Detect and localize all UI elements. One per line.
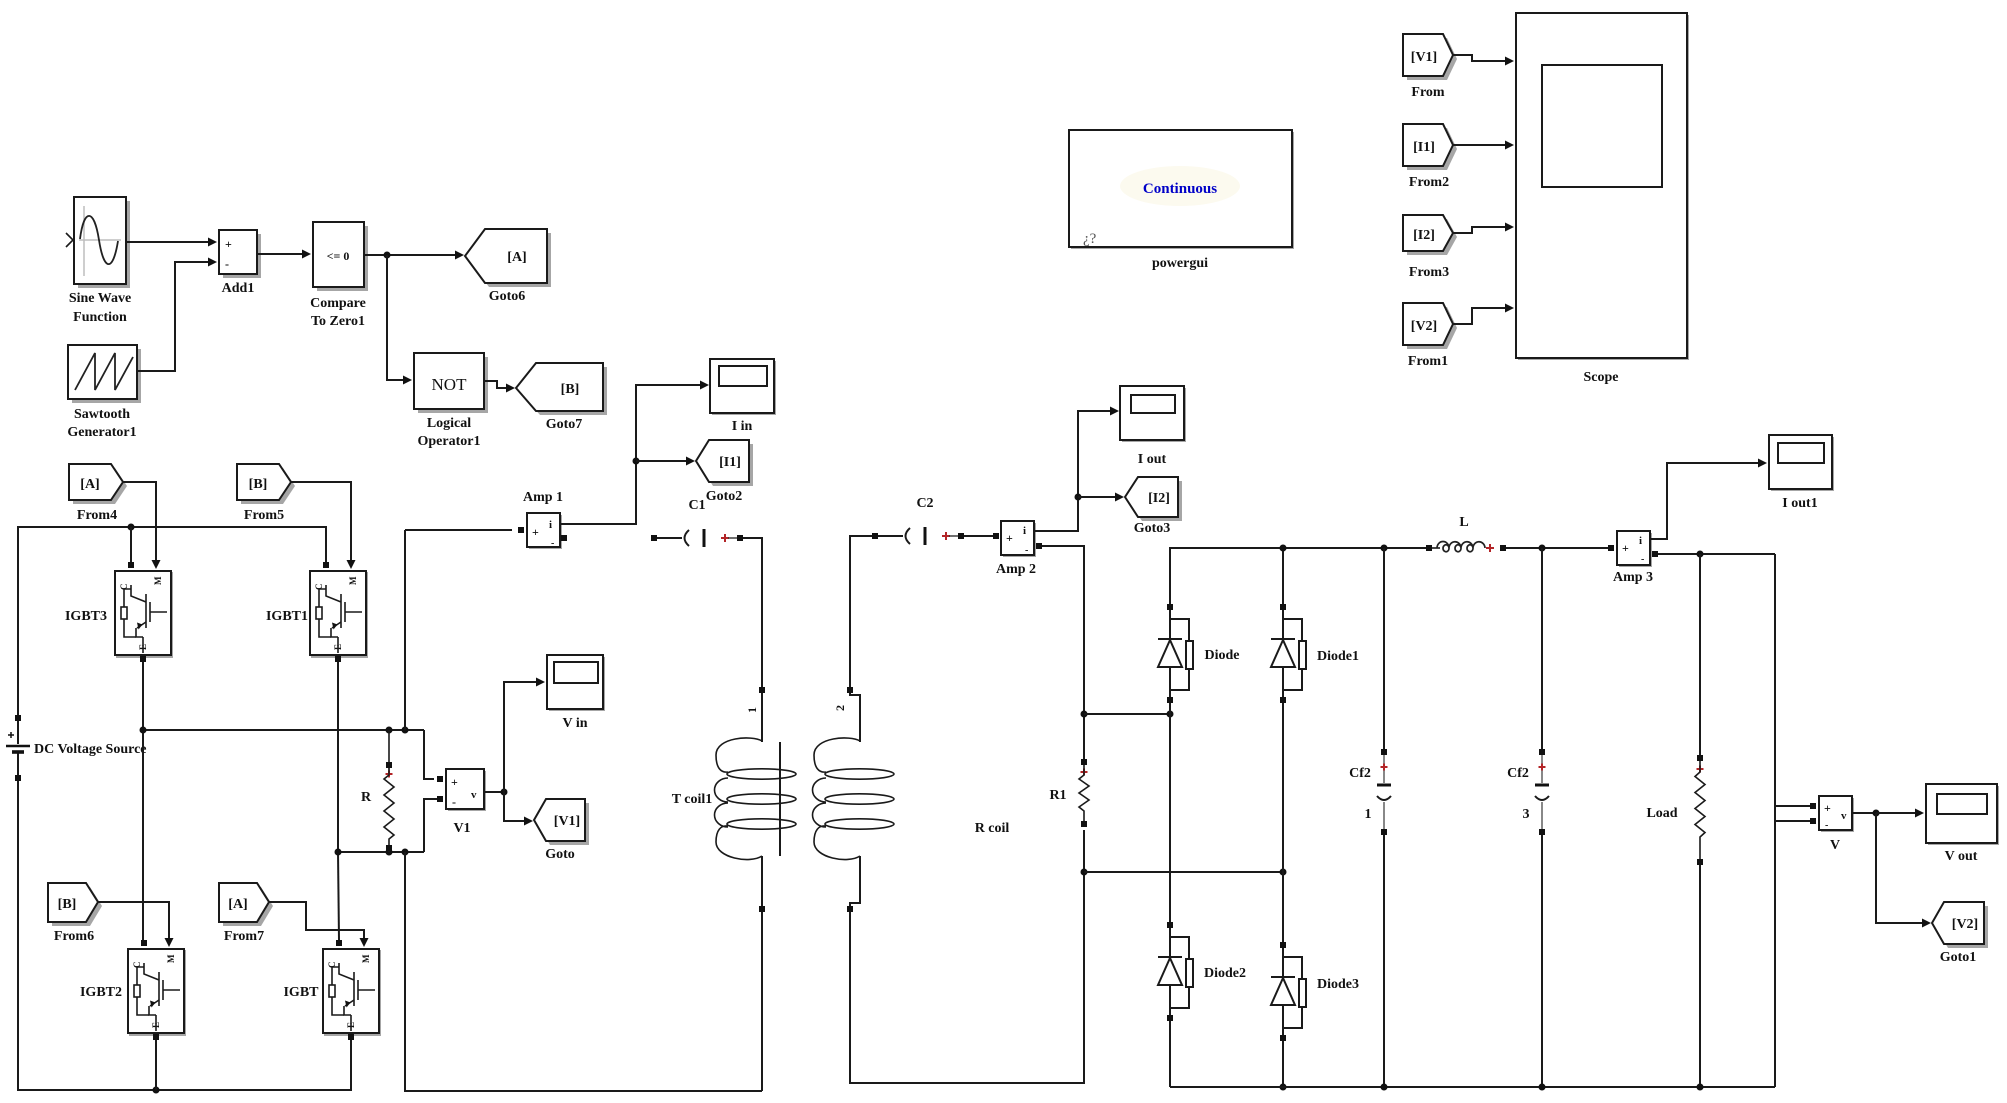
svg-text:T coil1: T coil1 bbox=[672, 792, 713, 807]
svg-text:-: - bbox=[551, 538, 554, 549]
wire From to Scope bbox=[1453, 55, 1514, 66]
transistor IGBT1 bbox=[266, 562, 368, 662]
node bottom rail Cf2 second bbox=[1539, 1084, 1546, 1091]
wire Diode1 to lower node bbox=[1282, 703, 1284, 872]
wire Diode to upper node bbox=[1169, 703, 1171, 714]
capacitor C2 bbox=[872, 496, 964, 545]
svg-text:Diode1: Diode1 bbox=[1317, 649, 1359, 664]
wire Amp2 minus down to R1 bbox=[1042, 546, 1084, 762]
node top rail Diode1 bbox=[1280, 545, 1287, 552]
wire DC source negative to bottom rail bbox=[18, 781, 351, 1090]
svg-text:[V2]: [V2] bbox=[1952, 917, 1978, 932]
svg-text:[B]: [B] bbox=[58, 897, 77, 912]
wire C2 to Amp2 bbox=[964, 535, 993, 537]
svg-text:Cf2: Cf2 bbox=[1349, 766, 1371, 781]
svg-text:-: - bbox=[1641, 554, 1644, 565]
wire bottom branch to primary return bbox=[405, 852, 762, 1091]
scope Scope bbox=[1516, 13, 1689, 385]
goto tag Goto [V1] bbox=[534, 799, 589, 862]
svg-text:R1: R1 bbox=[1049, 788, 1066, 803]
diode Diode1 bbox=[1271, 604, 1359, 703]
resistor R1 bbox=[1049, 759, 1089, 827]
voltmeter V bbox=[1810, 796, 1854, 853]
svg-text:DC Voltage Source: DC Voltage Source bbox=[34, 742, 147, 757]
node rectifier upper input at diode leg bbox=[1167, 711, 1174, 718]
inductor L bbox=[1426, 515, 1506, 552]
from tag From7 [A] bbox=[219, 883, 273, 944]
wire C1 to transformer primary bbox=[743, 538, 762, 687]
wire V1 output to junction bbox=[484, 791, 504, 793]
svg-text:L: L bbox=[1459, 515, 1468, 530]
svg-text:Cf2: Cf2 bbox=[1507, 766, 1529, 781]
block powergui bbox=[1069, 130, 1294, 271]
wire V output down to Goto1 bbox=[1876, 813, 1931, 928]
wire upper node to Diode2 bbox=[1169, 714, 1171, 922]
wire Add1 to Compare To Zero1 bbox=[257, 250, 311, 259]
svg-text:+: + bbox=[451, 775, 458, 789]
svg-text:Diode: Diode bbox=[1205, 648, 1240, 663]
wire V1 minus lead bbox=[424, 799, 437, 852]
scope I in bbox=[710, 359, 776, 434]
transformer T coil1 bbox=[672, 687, 894, 912]
wire junction down to Goto bbox=[504, 792, 533, 826]
svg-text:C1: C1 bbox=[688, 498, 705, 513]
voltmeter V1 bbox=[437, 769, 486, 836]
svg-text:V: V bbox=[1830, 838, 1840, 853]
svg-text:Scope: Scope bbox=[1584, 370, 1619, 385]
svg-text:NOT: NOT bbox=[432, 375, 468, 394]
svg-text:I in: I in bbox=[732, 419, 753, 434]
wire V plus lead bbox=[1775, 805, 1810, 807]
svg-text:From4: From4 bbox=[77, 508, 117, 523]
svg-text:v: v bbox=[1841, 810, 1847, 822]
wire secondary bottom return bbox=[850, 830, 1084, 1083]
svg-text:-: - bbox=[225, 257, 229, 271]
wire secondary top to C2 bbox=[850, 536, 872, 687]
svg-text:IGBT2: IGBT2 bbox=[80, 985, 122, 1000]
wire Sawtooth to Add1 bbox=[137, 258, 217, 372]
svg-text:Goto2: Goto2 bbox=[706, 489, 743, 504]
node mid rail B at right leg bbox=[335, 849, 342, 856]
node top rail Cf2 first leg bbox=[1381, 545, 1388, 552]
wire rectifier upper input bbox=[1084, 713, 1170, 715]
wire Sine Wave to Add1 bbox=[126, 238, 217, 247]
node mid rail A at left leg bbox=[140, 727, 147, 734]
svg-text:R coil: R coil bbox=[975, 821, 1010, 836]
block Sine Wave Function bbox=[66, 197, 131, 325]
block Compare To Zero1 bbox=[310, 222, 368, 329]
resistor Load bbox=[1646, 755, 1705, 865]
svg-text:+: + bbox=[1824, 801, 1831, 815]
svg-text:[V2]: [V2] bbox=[1411, 319, 1437, 334]
svg-text:powergui: powergui bbox=[1152, 256, 1208, 271]
wire From5 to IGBT1 gate bbox=[291, 482, 356, 569]
from tag From1 [V2] bbox=[1403, 303, 1457, 369]
svg-text:IGBT1: IGBT1 bbox=[266, 609, 308, 624]
svg-text:Add1: Add1 bbox=[222, 281, 255, 296]
wire From3 to Scope bbox=[1453, 223, 1514, 234]
svg-text:V1: V1 bbox=[453, 821, 470, 836]
node mid rail B at bottom branch bbox=[402, 849, 409, 856]
svg-text:i: i bbox=[549, 519, 552, 531]
wire branch to Goto2 bbox=[636, 457, 695, 466]
wire rectifier lower input bbox=[1084, 871, 1283, 873]
scope V in bbox=[547, 655, 605, 731]
wire Diode leg to top rail bbox=[1170, 548, 1426, 604]
wire output node down to V meter bbox=[1774, 554, 1776, 1087]
diode Diode bbox=[1158, 604, 1240, 703]
svg-text:[V1]: [V1] bbox=[1411, 50, 1437, 65]
node R1 bottom junction bbox=[1081, 869, 1088, 876]
svg-text:[A]: [A] bbox=[507, 250, 526, 265]
svg-text:1: 1 bbox=[1365, 807, 1372, 822]
node R1 top junction bbox=[1081, 711, 1088, 718]
node V1 output junction bbox=[501, 789, 508, 796]
ammeter Amp 2 bbox=[993, 521, 1042, 577]
svg-text:Sine Wave: Sine Wave bbox=[69, 291, 131, 306]
wire IGBT3 emitter to left leg node bbox=[142, 662, 144, 730]
wire V minus lead bbox=[1775, 820, 1810, 822]
svg-text:Load: Load bbox=[1646, 806, 1677, 821]
svg-text:+: + bbox=[225, 237, 232, 251]
wire Cf2 second leg to bottom rail bbox=[1541, 835, 1543, 1087]
svg-text:Function: Function bbox=[73, 310, 127, 325]
svg-text:To Zero1: To Zero1 bbox=[311, 314, 365, 329]
wire junction up to V in scope bbox=[504, 678, 545, 793]
node mid rail B at R bbox=[386, 849, 393, 856]
svg-text:V in: V in bbox=[562, 716, 587, 731]
svg-text:Sawtooth: Sawtooth bbox=[74, 407, 130, 422]
from tag From3 [I2] bbox=[1403, 215, 1457, 280]
wire Load to bottom rail bbox=[1699, 865, 1701, 1087]
wire primary bottom to return rail bbox=[761, 912, 763, 1091]
node V output bbox=[1873, 810, 1880, 817]
node mid rail A at R bbox=[386, 727, 393, 734]
svg-text:v: v bbox=[471, 789, 477, 801]
svg-text:I out: I out bbox=[1138, 452, 1167, 467]
svg-text:Amp 3: Amp 3 bbox=[1613, 570, 1653, 585]
from tag From5 [B] bbox=[237, 464, 295, 523]
wire IGBT2 emitter stub bbox=[155, 1040, 157, 1090]
node Amp2 output branch bbox=[1075, 494, 1082, 501]
svg-text:-: - bbox=[1825, 820, 1828, 831]
wire Cf2 first leg to bottom rail bbox=[1383, 835, 1385, 1087]
svg-text:[B]: [B] bbox=[561, 382, 580, 397]
wire V output junction bbox=[1852, 812, 1876, 814]
wire Cf2 second leg down bbox=[1541, 548, 1543, 749]
scope V out bbox=[1926, 784, 1999, 864]
wire branch to Goto3 bbox=[1078, 493, 1124, 502]
transistor IGBT bbox=[283, 940, 381, 1040]
node bottom rail Load bbox=[1697, 1084, 1704, 1091]
svg-text:Goto3: Goto3 bbox=[1134, 521, 1171, 536]
wire Amp1 current output up to I in bbox=[560, 381, 709, 525]
wire Cf2 first leg down bbox=[1383, 548, 1385, 749]
wire to V out scope bbox=[1876, 809, 1924, 818]
wire NOT to Goto7 bbox=[484, 381, 515, 393]
svg-text:+: + bbox=[1006, 531, 1013, 545]
wire Diode2 to bottom rail bbox=[1169, 1021, 1171, 1087]
svg-text:From1: From1 bbox=[1408, 354, 1448, 369]
svg-text:Goto7: Goto7 bbox=[546, 417, 583, 432]
svg-text:[B]: [B] bbox=[249, 477, 268, 492]
svg-text:-: - bbox=[452, 795, 456, 809]
wire mid rail A to Amp1 input bbox=[405, 529, 512, 531]
goto tag Goto6 [A] bbox=[465, 229, 551, 304]
node compare output junction bbox=[384, 252, 391, 259]
from tag From2 [I1] bbox=[1403, 124, 1457, 190]
wire From6 to IGBT2 gate bbox=[98, 902, 174, 947]
wire From2 to Scope bbox=[1453, 141, 1514, 150]
svg-text:i: i bbox=[1639, 535, 1642, 547]
svg-text:i: i bbox=[1023, 525, 1026, 537]
wire bridge mid rail A bbox=[143, 729, 424, 731]
capacitor Cf2 3 bbox=[1507, 749, 1549, 835]
from tag From4 [A] bbox=[69, 464, 127, 523]
svg-text:Goto: Goto bbox=[545, 847, 575, 862]
wire L to Amp3 bbox=[1506, 547, 1608, 549]
svg-text:<= 0: <= 0 bbox=[327, 249, 350, 263]
wire IGBT1 emitter down right leg bbox=[337, 662, 339, 852]
svg-text:Operator1: Operator1 bbox=[418, 434, 481, 449]
svg-text:I out1: I out1 bbox=[1782, 496, 1817, 511]
diode Diode2 bbox=[1158, 922, 1246, 1021]
svg-text:+: + bbox=[532, 525, 539, 539]
goto tag Goto2 [I1] bbox=[696, 440, 753, 504]
wire Amp3 minus to load node bbox=[1658, 553, 1775, 555]
svg-text:[V1]: [V1] bbox=[554, 814, 580, 829]
svg-text:From2: From2 bbox=[1409, 175, 1449, 190]
node bottom rail Diode3 leg bbox=[1280, 1084, 1287, 1091]
svg-text:From5: From5 bbox=[244, 508, 284, 523]
logic block NOT Logical Operator1 bbox=[414, 353, 488, 449]
svg-text:2: 2 bbox=[833, 705, 847, 711]
svg-text:Goto1: Goto1 bbox=[1940, 950, 1977, 965]
wire load column down bbox=[1699, 554, 1701, 755]
resistor R bbox=[361, 730, 394, 852]
svg-text:[I1]: [I1] bbox=[1413, 140, 1435, 155]
goto tag Goto3 [I2] bbox=[1125, 477, 1182, 536]
svg-text:+: + bbox=[1622, 541, 1629, 555]
wire lower node to Diode3 bbox=[1282, 872, 1284, 942]
node load column top bbox=[1697, 551, 1704, 558]
transistor IGBT2 bbox=[80, 940, 186, 1040]
svg-text:Diode3: Diode3 bbox=[1317, 977, 1359, 992]
ammeter Amp 3 bbox=[1608, 531, 1658, 585]
svg-text:IGBT: IGBT bbox=[283, 985, 319, 1000]
node Amp1 output branch bbox=[633, 458, 640, 465]
wire Compare output to Goto6 bbox=[364, 251, 464, 260]
wire Amp3 current output to I out1 bbox=[1650, 459, 1767, 540]
from tag From6 [B] bbox=[48, 883, 102, 944]
svg-text:Goto6: Goto6 bbox=[489, 289, 526, 304]
node rectifier lower input at diode leg bbox=[1280, 869, 1287, 876]
goto tag Goto7 [B] bbox=[516, 363, 607, 432]
svg-text:C2: C2 bbox=[916, 496, 933, 511]
node top rail Cf2 second leg bbox=[1539, 545, 1546, 552]
svg-text:From6: From6 bbox=[54, 929, 94, 944]
svg-text:1: 1 bbox=[745, 707, 759, 713]
wire top rail stub to IGBT3 collector bbox=[130, 527, 132, 562]
svg-text:3: 3 bbox=[1523, 807, 1530, 822]
svg-text:Logical: Logical bbox=[427, 416, 471, 431]
summing block Add1 bbox=[219, 230, 261, 296]
wire V1 plus lead bbox=[424, 730, 434, 779]
svg-text:¿?: ¿? bbox=[1083, 231, 1097, 247]
node mid rail A at Amp1 branch bbox=[402, 727, 409, 734]
capacitor Cf2 1 bbox=[1349, 749, 1391, 835]
wire Diode1 leg top bbox=[1282, 548, 1284, 604]
block Sawtooth Generator1 bbox=[67, 345, 141, 440]
wire bridge mid rail B bbox=[338, 851, 424, 853]
from tag From [V1] bbox=[1403, 34, 1457, 100]
scope I out bbox=[1120, 386, 1186, 467]
wire left leg node down to IGBT2 collector bbox=[142, 730, 144, 940]
goto tag Goto1 [V2] bbox=[1932, 902, 1988, 965]
wire From4 to IGBT3 gate bbox=[123, 482, 161, 569]
svg-text:Amp 1: Amp 1 bbox=[523, 490, 563, 505]
svg-text:Diode2: Diode2 bbox=[1204, 966, 1246, 981]
capacitor C1 bbox=[651, 498, 743, 547]
svg-text:Generator1: Generator1 bbox=[67, 425, 136, 440]
svg-text:From3: From3 bbox=[1409, 265, 1449, 280]
svg-text:Continuous: Continuous bbox=[1143, 181, 1217, 197]
wire Amp2 current output up to I out bbox=[1034, 407, 1119, 532]
svg-text:[A]: [A] bbox=[228, 897, 247, 912]
wire From1 to Scope bbox=[1453, 304, 1514, 325]
transistor IGBT3 bbox=[65, 562, 173, 662]
wire DC source positive to top rail bbox=[18, 527, 326, 715]
node bottom rail Cf2 first bbox=[1381, 1084, 1388, 1091]
node bottom rail IGBT2 emitter bbox=[153, 1087, 160, 1094]
svg-text:[I2]: [I2] bbox=[1413, 228, 1435, 243]
wire Diode3 to bottom rail bbox=[1282, 1041, 1284, 1087]
wire junction down to NOT bbox=[387, 255, 412, 385]
svg-text:R: R bbox=[361, 790, 372, 805]
battery DC Voltage Source bbox=[6, 715, 147, 781]
svg-text:Amp 2: Amp 2 bbox=[996, 562, 1036, 577]
svg-text:[A]: [A] bbox=[80, 477, 99, 492]
svg-text:[I1]: [I1] bbox=[719, 455, 741, 470]
wire Amp1 input branch down bbox=[404, 530, 406, 730]
wire right leg node down to IGBT collector bbox=[338, 852, 339, 940]
ammeter Amp 1 bbox=[518, 490, 567, 549]
svg-text:-: - bbox=[1025, 545, 1028, 556]
svg-text:IGBT3: IGBT3 bbox=[65, 609, 107, 624]
diode Diode3 bbox=[1271, 942, 1359, 1041]
node top rail IGBT3 collector bbox=[128, 524, 135, 531]
svg-text:Compare: Compare bbox=[310, 296, 366, 311]
svg-text:From: From bbox=[1411, 85, 1445, 100]
wire bottom rail rectifier section bbox=[1170, 1086, 1775, 1088]
wire From7 to IGBT gate bbox=[269, 902, 369, 947]
svg-text:V out: V out bbox=[1945, 849, 1978, 864]
scope I out1 bbox=[1769, 435, 1834, 511]
svg-text:[I2]: [I2] bbox=[1148, 491, 1170, 506]
svg-text:From7: From7 bbox=[224, 929, 264, 944]
